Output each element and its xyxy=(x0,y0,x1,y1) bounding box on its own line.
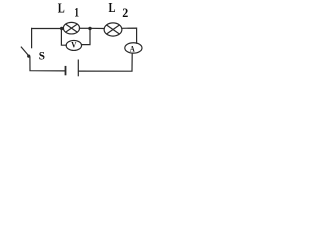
svg-text:S: S xyxy=(39,50,45,62)
lamp L1 (crossed circle) xyxy=(63,22,79,34)
wire: left rail from switch fixed contact up to top-left corner xyxy=(31,28,33,47)
wire: battery negative plate to bottom-left corner up to switch pivot xyxy=(30,57,65,71)
node A (junction dot left of L1) xyxy=(60,27,63,30)
svg-text:2: 2 xyxy=(122,5,128,20)
battery BT1: positive long plate xyxy=(77,60,79,77)
lamp L2 (crossed circle) xyxy=(104,23,122,36)
svg-text:V: V xyxy=(71,40,76,49)
label L1 xyxy=(58,1,79,20)
svg-text:L: L xyxy=(109,0,116,15)
label L2 xyxy=(109,0,129,20)
wire: ammeter bottom to bottom-right corner to battery positive plate xyxy=(79,53,132,71)
voltmeter V1 xyxy=(66,40,81,50)
switch S: blade (open) xyxy=(21,47,29,56)
wire: top wire from top-left corner to node A xyxy=(32,28,62,30)
svg-text:L: L xyxy=(58,1,65,16)
switch S: pivot dot xyxy=(27,55,30,58)
ammeter A1 xyxy=(125,43,142,54)
wire: voltmeter branch from node A down and right to voltmeter left terminal xyxy=(61,28,66,45)
battery BT1: negative short plate xyxy=(65,66,67,75)
svg-text:1: 1 xyxy=(74,6,79,20)
node B (junction dot right of L1) xyxy=(88,27,91,30)
wire: node B to lamp L2 left terminal xyxy=(90,27,104,29)
wire: voltmeter right terminal up to node B xyxy=(82,28,91,44)
wire: lamp L1 right terminal to node B xyxy=(79,27,90,29)
wire: lamp L2 right terminal to top-right corner down to ammeter top xyxy=(122,28,137,43)
svg-text:A: A xyxy=(130,43,136,53)
wire: node A to lamp L1 left terminal xyxy=(62,27,64,29)
